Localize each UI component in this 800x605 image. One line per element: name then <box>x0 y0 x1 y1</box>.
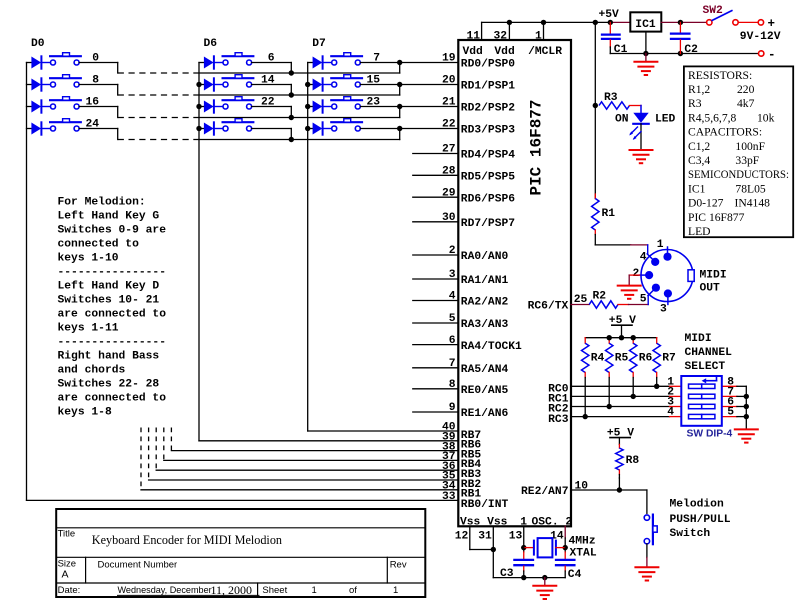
diode D7 row 2 (1N4148) <box>308 106 313 108</box>
svg-text:5: 5 <box>640 294 647 306</box>
svg-text:1: 1 <box>393 585 398 596</box>
svg-text:1: 1 <box>535 31 542 43</box>
svg-text:SW DIP-4: SW DIP-4 <box>687 429 733 440</box>
wire switch output <box>79 128 118 130</box>
wire DIP common to ground <box>745 386 747 428</box>
svg-text:21: 21 <box>442 97 456 109</box>
svg-text:PUSH/PULL: PUSH/PULL <box>670 514 731 526</box>
resistor R4 10k <box>584 338 586 344</box>
diode D0 row 3 (1N4148) <box>27 128 32 130</box>
junction <box>196 82 201 87</box>
wire +5V drop to R3/R1 <box>594 22 596 198</box>
svg-text:RA2/AN2: RA2/AN2 <box>461 297 509 309</box>
svg-text:R3: R3 <box>688 97 702 110</box>
wire switch output <box>252 84 292 86</box>
wire pin 39 (RB6) <box>199 440 458 442</box>
junction <box>542 575 547 580</box>
wire switch output <box>252 106 292 108</box>
svg-text:Wednesday, December: Wednesday, December <box>118 585 212 595</box>
svg-text:----------------: ---------------- <box>58 267 166 279</box>
svg-text:OUT: OUT <box>700 283 721 295</box>
svg-text:R4: R4 <box>591 353 605 365</box>
svg-text:keys 1-11: keys 1-11 <box>58 323 119 335</box>
wire switch to ground <box>646 544 648 558</box>
connector J1 MIDI OUT (DIN-5) <box>641 250 693 302</box>
svg-text:RD6/PSP6: RD6/PSP6 <box>461 193 515 205</box>
svg-text:Document Number: Document Number <box>98 560 178 571</box>
junction <box>305 126 310 131</box>
switch 8 pushbutton <box>50 77 81 79</box>
svg-text:are connected to: are connected to <box>58 393 167 405</box>
wire R4 to RC line <box>584 378 586 417</box>
junction <box>631 394 636 399</box>
wire matrix row line 1 <box>199 94 400 96</box>
wire pin 2 stub <box>413 254 459 256</box>
junction <box>607 404 612 409</box>
parts list box <box>684 66 793 237</box>
svg-text:R8: R8 <box>626 455 640 467</box>
wire switch output <box>360 128 458 130</box>
wire pin 34 (RB1) <box>141 489 458 491</box>
svg-text:R1,2: R1,2 <box>688 83 710 96</box>
junction <box>744 404 749 409</box>
svg-text:4: 4 <box>640 252 647 264</box>
wire pin 11 stub <box>481 22 483 40</box>
svg-text:2: 2 <box>449 245 456 257</box>
svg-text:D7: D7 <box>312 38 326 50</box>
wire Vss pin 12 <box>469 526 471 549</box>
svg-text:RD4/PSP4: RD4/PSP4 <box>461 150 515 162</box>
wire pin 36 (RB3) <box>156 469 458 471</box>
junction R3 tap <box>593 103 598 108</box>
svg-text:19: 19 <box>442 53 456 65</box>
wire switch output <box>79 62 118 64</box>
wire pin 28 stub <box>413 174 459 176</box>
switch push/pull (pushbutton) <box>644 515 649 520</box>
wire ground rail <box>610 53 758 55</box>
junction <box>654 384 659 389</box>
diode D7 row 1 (1N4148) <box>308 84 313 86</box>
junction <box>617 487 622 492</box>
junction <box>583 414 588 419</box>
diode D6 row 0 (1N4148) <box>199 62 204 64</box>
svg-text:Title: Title <box>58 529 76 540</box>
svg-text:SELECT: SELECT <box>685 361 726 373</box>
svg-text:7: 7 <box>449 358 456 370</box>
svg-text:connected to: connected to <box>58 239 140 251</box>
svg-text:R2: R2 <box>593 291 607 303</box>
svg-text:CAPACITORS:: CAPACITORS: <box>688 126 762 139</box>
svg-text:SW2: SW2 <box>703 5 724 17</box>
svg-text:Switches 0-9 are: Switches 0-9 are <box>58 225 167 237</box>
svg-text:4k7: 4k7 <box>737 97 755 110</box>
resistor R5 10k <box>608 338 610 344</box>
resistor R3 4k7 <box>599 102 630 109</box>
svg-text:R7: R7 <box>662 353 676 365</box>
wire oscillator ground rail <box>493 577 565 579</box>
switch SW1 DIP-4 <box>681 376 722 426</box>
capacitor C1 100nF <box>609 22 611 33</box>
svg-text:R4,5,6,7,8: R4,5,6,7,8 <box>688 111 737 124</box>
junction <box>631 335 636 340</box>
resistor R6 10k <box>632 338 634 344</box>
svg-text:1: 1 <box>312 585 317 596</box>
svg-text:9: 9 <box>449 402 456 414</box>
svg-text:RC3: RC3 <box>548 414 569 426</box>
capacitor C4 33pF <box>564 548 566 552</box>
wire switch output <box>252 128 292 130</box>
junction <box>196 126 201 131</box>
svg-text:100nF: 100nF <box>735 140 765 153</box>
junction <box>305 104 310 109</box>
junction <box>541 20 546 25</box>
junction <box>397 82 402 87</box>
wire RC0 to DIP <box>571 385 670 387</box>
title block cell dividers <box>85 557 87 583</box>
title block frame <box>56 509 425 597</box>
junction <box>289 70 294 75</box>
wire R2 to MIDI pin 5 <box>647 296 649 305</box>
svg-text:Switch: Switch <box>670 528 711 540</box>
wire matrix row line 0 (dashed continuation) <box>118 72 199 74</box>
diode D6 row 3 (1N4148) <box>199 128 204 130</box>
wire dashed column stub to RB5 <box>170 428 172 451</box>
wire pin 32 stub <box>508 22 510 40</box>
switch 14 pushbutton <box>223 77 254 79</box>
svg-text:----------------: ---------------- <box>58 337 166 349</box>
svg-text:PIC 16F877: PIC 16F877 <box>528 99 546 195</box>
junction C2/ground <box>678 51 683 56</box>
svg-text:RE2/AN7: RE2/AN7 <box>521 486 569 498</box>
svg-text:R5: R5 <box>615 353 629 365</box>
svg-text:1: 1 <box>657 239 664 251</box>
svg-text:9V-12V: 9V-12V <box>740 31 781 43</box>
wire matrix row line 0 <box>199 72 400 74</box>
wire R8 to RE2 <box>618 478 620 490</box>
MIDI pin 2 <box>640 274 650 276</box>
resistor R8 10k <box>618 444 620 448</box>
wire pin 40 (RB7) <box>308 430 459 432</box>
junction +5V / C1 branch <box>608 20 613 25</box>
svg-text:33: 33 <box>442 491 456 503</box>
resistor R1 220 <box>594 194 596 199</box>
svg-text:Switches 10- 21: Switches 10- 21 <box>58 295 160 307</box>
diode D0 row 0 (1N4148) <box>27 62 32 64</box>
diode D7 row 3 (1N4148) <box>308 128 313 130</box>
svg-text:keys 1-8: keys 1-8 <box>58 407 112 419</box>
svg-text:Keyboard Encoder for MIDI Melo: Keyboard Encoder for MIDI Melodion <box>92 533 282 547</box>
switch (unlabeled) pushbutton <box>223 121 254 123</box>
svg-text:RA3/AN3: RA3/AN3 <box>461 319 509 331</box>
svg-text:28: 28 <box>442 166 456 178</box>
wire DIP pin 7 <box>722 395 737 397</box>
junction <box>507 20 512 25</box>
svg-text:4MHz: 4MHz <box>569 535 596 547</box>
svg-text:RE0/AN5: RE0/AN5 <box>461 385 509 397</box>
MIDI pin 1 <box>667 247 669 257</box>
junction <box>289 115 294 120</box>
svg-text:RA4/TOCK1: RA4/TOCK1 <box>461 341 522 353</box>
capacitor C3 33pF <box>523 548 525 552</box>
switch 15 pushbutton <box>331 77 362 79</box>
resistor R2 220 <box>571 304 589 306</box>
junction <box>607 335 612 340</box>
svg-text:RD1/PSP1: RD1/PSP1 <box>461 81 515 93</box>
wire switch output <box>360 106 458 108</box>
svg-text:MIDI: MIDI <box>700 270 727 282</box>
svg-text:of: of <box>349 585 357 596</box>
svg-text:For Melodion:: For Melodion: <box>58 197 146 209</box>
junction <box>397 60 402 65</box>
svg-text:CHANNEL: CHANNEL <box>685 347 733 359</box>
wire R5 to RC line <box>608 378 610 407</box>
wire pin 35 (RB2) <box>149 479 459 481</box>
svg-text:220: 220 <box>737 83 755 96</box>
wire pin 30 stub <box>413 221 459 223</box>
svg-text:Melodion: Melodion <box>670 499 724 511</box>
regulator IC1 78L05 <box>630 12 661 31</box>
wire pin 29 stub <box>413 196 459 198</box>
svg-text:RB0/INT: RB0/INT <box>461 499 509 511</box>
wire IC1 output <box>661 21 706 23</box>
node D7 column bus <box>307 63 309 432</box>
svg-text:27: 27 <box>442 144 456 156</box>
junction <box>289 137 294 142</box>
svg-text:R3: R3 <box>604 92 618 104</box>
wire dashed column stub to RB3 <box>155 428 157 471</box>
svg-text:Date:: Date: <box>58 585 81 596</box>
wire pin 38 (RB5) <box>171 450 458 452</box>
wire switch output <box>360 84 458 86</box>
title block row lines <box>56 527 425 529</box>
junction <box>563 545 568 550</box>
wire DIP pin 5 <box>722 416 737 418</box>
svg-text:RD3/PSP3: RD3/PSP3 <box>461 125 515 137</box>
MIDI pin 3 <box>667 294 669 305</box>
resistor R7 10k <box>656 338 658 344</box>
junction <box>521 545 526 550</box>
wire pin 4 stub <box>413 300 459 302</box>
svg-text:RD0/PSP0: RD0/PSP0 <box>461 59 515 71</box>
node D0 column bus <box>26 63 28 501</box>
svg-text:are connected to: are connected to <box>58 309 167 321</box>
wire switch output <box>252 62 292 64</box>
svg-text:and chords: and chords <box>58 365 126 377</box>
svg-text:R1: R1 <box>602 208 616 220</box>
svg-text:8: 8 <box>449 379 456 391</box>
wire matrix row line 2 (dashed continuation) <box>118 117 199 119</box>
svg-text:IC1: IC1 <box>635 19 656 31</box>
junction <box>491 547 496 552</box>
switch (unlabeled) pushbutton <box>331 121 362 123</box>
junction <box>397 126 402 131</box>
switch 7 pushbutton <box>331 55 362 57</box>
wire switch output <box>79 84 118 86</box>
svg-text:3: 3 <box>449 269 456 281</box>
junction <box>196 104 201 109</box>
svg-text:13: 13 <box>509 531 523 543</box>
node - terminal <box>759 51 764 56</box>
MIDI pin 4 <box>647 254 655 262</box>
svg-text:20: 20 <box>442 75 456 87</box>
wire matrix row line 3 (dashed continuation) <box>118 139 199 141</box>
switch 24 pushbutton <box>50 121 81 123</box>
wire pin 5 stub <box>413 322 459 324</box>
svg-text:keys 1-10: keys 1-10 <box>58 253 119 265</box>
junction <box>619 335 624 340</box>
svg-text:4: 4 <box>449 291 456 303</box>
wire dashed column stub to RB1 <box>140 428 142 490</box>
svg-text:32: 32 <box>493 31 507 43</box>
crystal X1 4MHz <box>524 547 534 549</box>
wire RC1 to DIP <box>571 395 670 397</box>
DIP switch element 2 <box>689 394 702 398</box>
wire DIP pin 6 <box>722 406 737 408</box>
wire switch output <box>360 62 458 64</box>
svg-text:Rev: Rev <box>390 560 407 571</box>
wire pin 33 (RB0/INT) <box>27 499 459 501</box>
diode D7 row 0 (1N4148) <box>308 62 313 64</box>
LED indicator <box>640 106 642 113</box>
junction +5V / R3,R1 branch <box>593 20 598 25</box>
svg-text:IN4148: IN4148 <box>735 197 771 210</box>
svg-text:31: 31 <box>478 531 492 543</box>
svg-text:RESISTORS:: RESISTORS: <box>688 69 752 82</box>
wire RC2 to DIP <box>571 406 670 408</box>
svg-text:Vdd: Vdd <box>494 46 514 58</box>
svg-text:11: 11 <box>466 31 480 43</box>
wire pin 9 stub <box>413 411 459 413</box>
op-amp U1 : PIC 16F877 microcontroller body <box>458 40 571 526</box>
svg-text:PIC 16F877: PIC 16F877 <box>688 211 745 224</box>
ground (LED) <box>630 149 653 151</box>
MIDI pin 5 <box>648 288 656 296</box>
DIP actuation arrow <box>705 380 716 382</box>
junction <box>397 104 402 109</box>
node D6 column bus <box>198 63 200 441</box>
svg-text:C3: C3 <box>500 568 514 580</box>
svg-text:MIDI: MIDI <box>685 333 712 345</box>
wire +5V distribution <box>585 337 657 339</box>
junction <box>744 394 749 399</box>
svg-text:SEMICONDUCTORS:: SEMICONDUCTORS: <box>688 168 789 181</box>
svg-text:OSC. 2: OSC. 2 <box>532 516 573 528</box>
ground (oscillator) <box>544 578 546 586</box>
svg-text:LED: LED <box>688 225 711 238</box>
svg-text:RD2/PSP2: RD2/PSP2 <box>461 103 515 115</box>
switch 23 pushbutton <box>331 99 362 101</box>
junction <box>289 92 294 97</box>
diode D0 row 2 (1N4148) <box>27 106 32 108</box>
svg-text:RE1/AN6: RE1/AN6 <box>461 408 509 420</box>
switch 16 pushbutton <box>50 99 81 101</box>
svg-text:C3,4: C3,4 <box>688 154 710 167</box>
junction <box>521 575 526 580</box>
wire dashed column stub to RB4 <box>163 428 165 461</box>
svg-text:22: 22 <box>442 119 456 131</box>
svg-text:D6: D6 <box>204 38 218 50</box>
switch 0 pushbutton <box>50 55 81 57</box>
wire OSC2 pin 14 <box>564 526 566 538</box>
wire R1 to MIDI pin 4 <box>594 235 596 245</box>
wire matrix row line 3 <box>199 139 400 141</box>
wire OSC1 pin 13 <box>523 526 525 547</box>
svg-text:12: 12 <box>455 531 469 543</box>
svg-text:ON: ON <box>615 114 629 126</box>
svg-text:RA0/AN0: RA0/AN0 <box>461 251 509 263</box>
svg-text:RA5/AN4: RA5/AN4 <box>461 364 509 376</box>
svg-text:/MCLR: /MCLR <box>528 46 562 58</box>
svg-text:Vss Vss: Vss Vss <box>460 516 508 528</box>
svg-text:+: + <box>768 17 776 31</box>
svg-text:D0-127: D0-127 <box>688 197 724 210</box>
wire DIP pin 8 <box>722 385 737 387</box>
wire pin 1 stub <box>543 22 545 40</box>
svg-text:-: - <box>768 48 776 62</box>
wire pin 8 stub <box>413 388 459 390</box>
svg-text:C4: C4 <box>568 569 582 581</box>
wire pin 3 stub <box>413 278 459 280</box>
svg-text:RD7/PSP7: RD7/PSP7 <box>461 218 515 230</box>
svg-text:Left Hand Key D: Left Hand Key D <box>58 281 160 293</box>
svg-text:6: 6 <box>449 335 456 347</box>
svg-text:C1,2: C1,2 <box>688 140 710 153</box>
wire pin 7 stub <box>413 367 459 369</box>
DIP switch element 3 <box>689 404 702 408</box>
wire matrix row line 2 <box>199 117 400 119</box>
svg-text:D0: D0 <box>31 38 45 50</box>
switch 22 pushbutton <box>223 99 254 101</box>
diode D0 row 1 (1N4148) <box>27 84 32 86</box>
svg-text:R6: R6 <box>639 353 653 365</box>
svg-text:10k: 10k <box>757 111 775 124</box>
switch 6 pushbutton <box>223 55 254 57</box>
diode D6 row 1 (1N4148) <box>199 84 204 86</box>
wire R6 to RC line <box>632 378 634 397</box>
svg-text:78L05: 78L05 <box>735 182 765 195</box>
wire matrix row line 1 (dashed continuation) <box>118 94 199 96</box>
svg-text:3: 3 <box>660 304 667 316</box>
ground (supply) <box>645 54 647 62</box>
svg-text:Left Hand Key G: Left Hand Key G <box>58 211 160 223</box>
svg-text:33pF: 33pF <box>735 154 759 167</box>
wire MIDI pin 2 to ground <box>629 274 639 276</box>
wire pin 6 stub <box>413 344 459 346</box>
svg-text:IC1: IC1 <box>688 182 706 195</box>
svg-text:RA1/AN1: RA1/AN1 <box>461 275 509 287</box>
wire IC1 ground lead <box>645 32 647 54</box>
DIP switch element 1 <box>689 384 702 388</box>
svg-text:5: 5 <box>449 313 456 325</box>
ground (push/pull) <box>646 558 648 568</box>
svg-text:C2: C2 <box>684 44 698 56</box>
svg-text:A: A <box>62 569 69 581</box>
wire Vss pin 31 <box>492 526 494 549</box>
junction <box>744 414 749 419</box>
svg-text:+5V: +5V <box>599 9 620 21</box>
wire pin 37 (RB4) <box>164 459 459 461</box>
wire R7 to RC line <box>656 378 658 387</box>
DIP switch element 4 <box>689 414 702 418</box>
svg-text:Right hand Bass: Right hand Bass <box>58 351 160 363</box>
wire RC3 to DIP <box>571 416 670 418</box>
junction <box>678 20 683 25</box>
net +5V top rail <box>482 21 611 23</box>
wire pin 27 stub <box>413 153 459 155</box>
svg-text:30: 30 <box>442 212 456 224</box>
svg-text:Vdd: Vdd <box>463 46 483 58</box>
wire switch output <box>79 106 118 108</box>
